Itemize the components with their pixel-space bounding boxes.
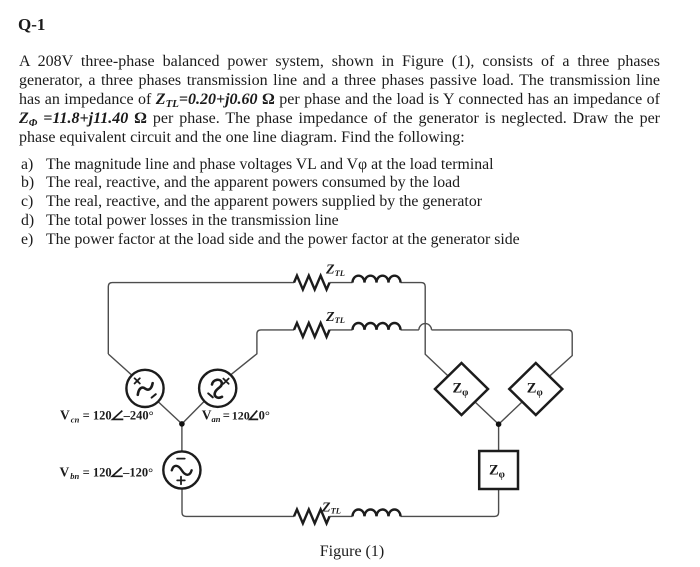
svg-text:ZTL: ZTL bbox=[321, 500, 341, 515]
svg-text:ZTL: ZTL bbox=[325, 310, 345, 325]
svg-text:–120°: –120° bbox=[122, 465, 153, 479]
svg-text:Vbn= 120: Vbn= 120 bbox=[60, 464, 112, 481]
svg-text:–240°: –240° bbox=[123, 409, 154, 423]
svg-text:Van=120: Van=120 bbox=[202, 407, 250, 424]
svg-text:ZTL: ZTL bbox=[325, 263, 345, 278]
svg-text:0°: 0° bbox=[259, 408, 270, 422]
svg-text:Vcn= 120: Vcn= 120 bbox=[60, 408, 112, 425]
